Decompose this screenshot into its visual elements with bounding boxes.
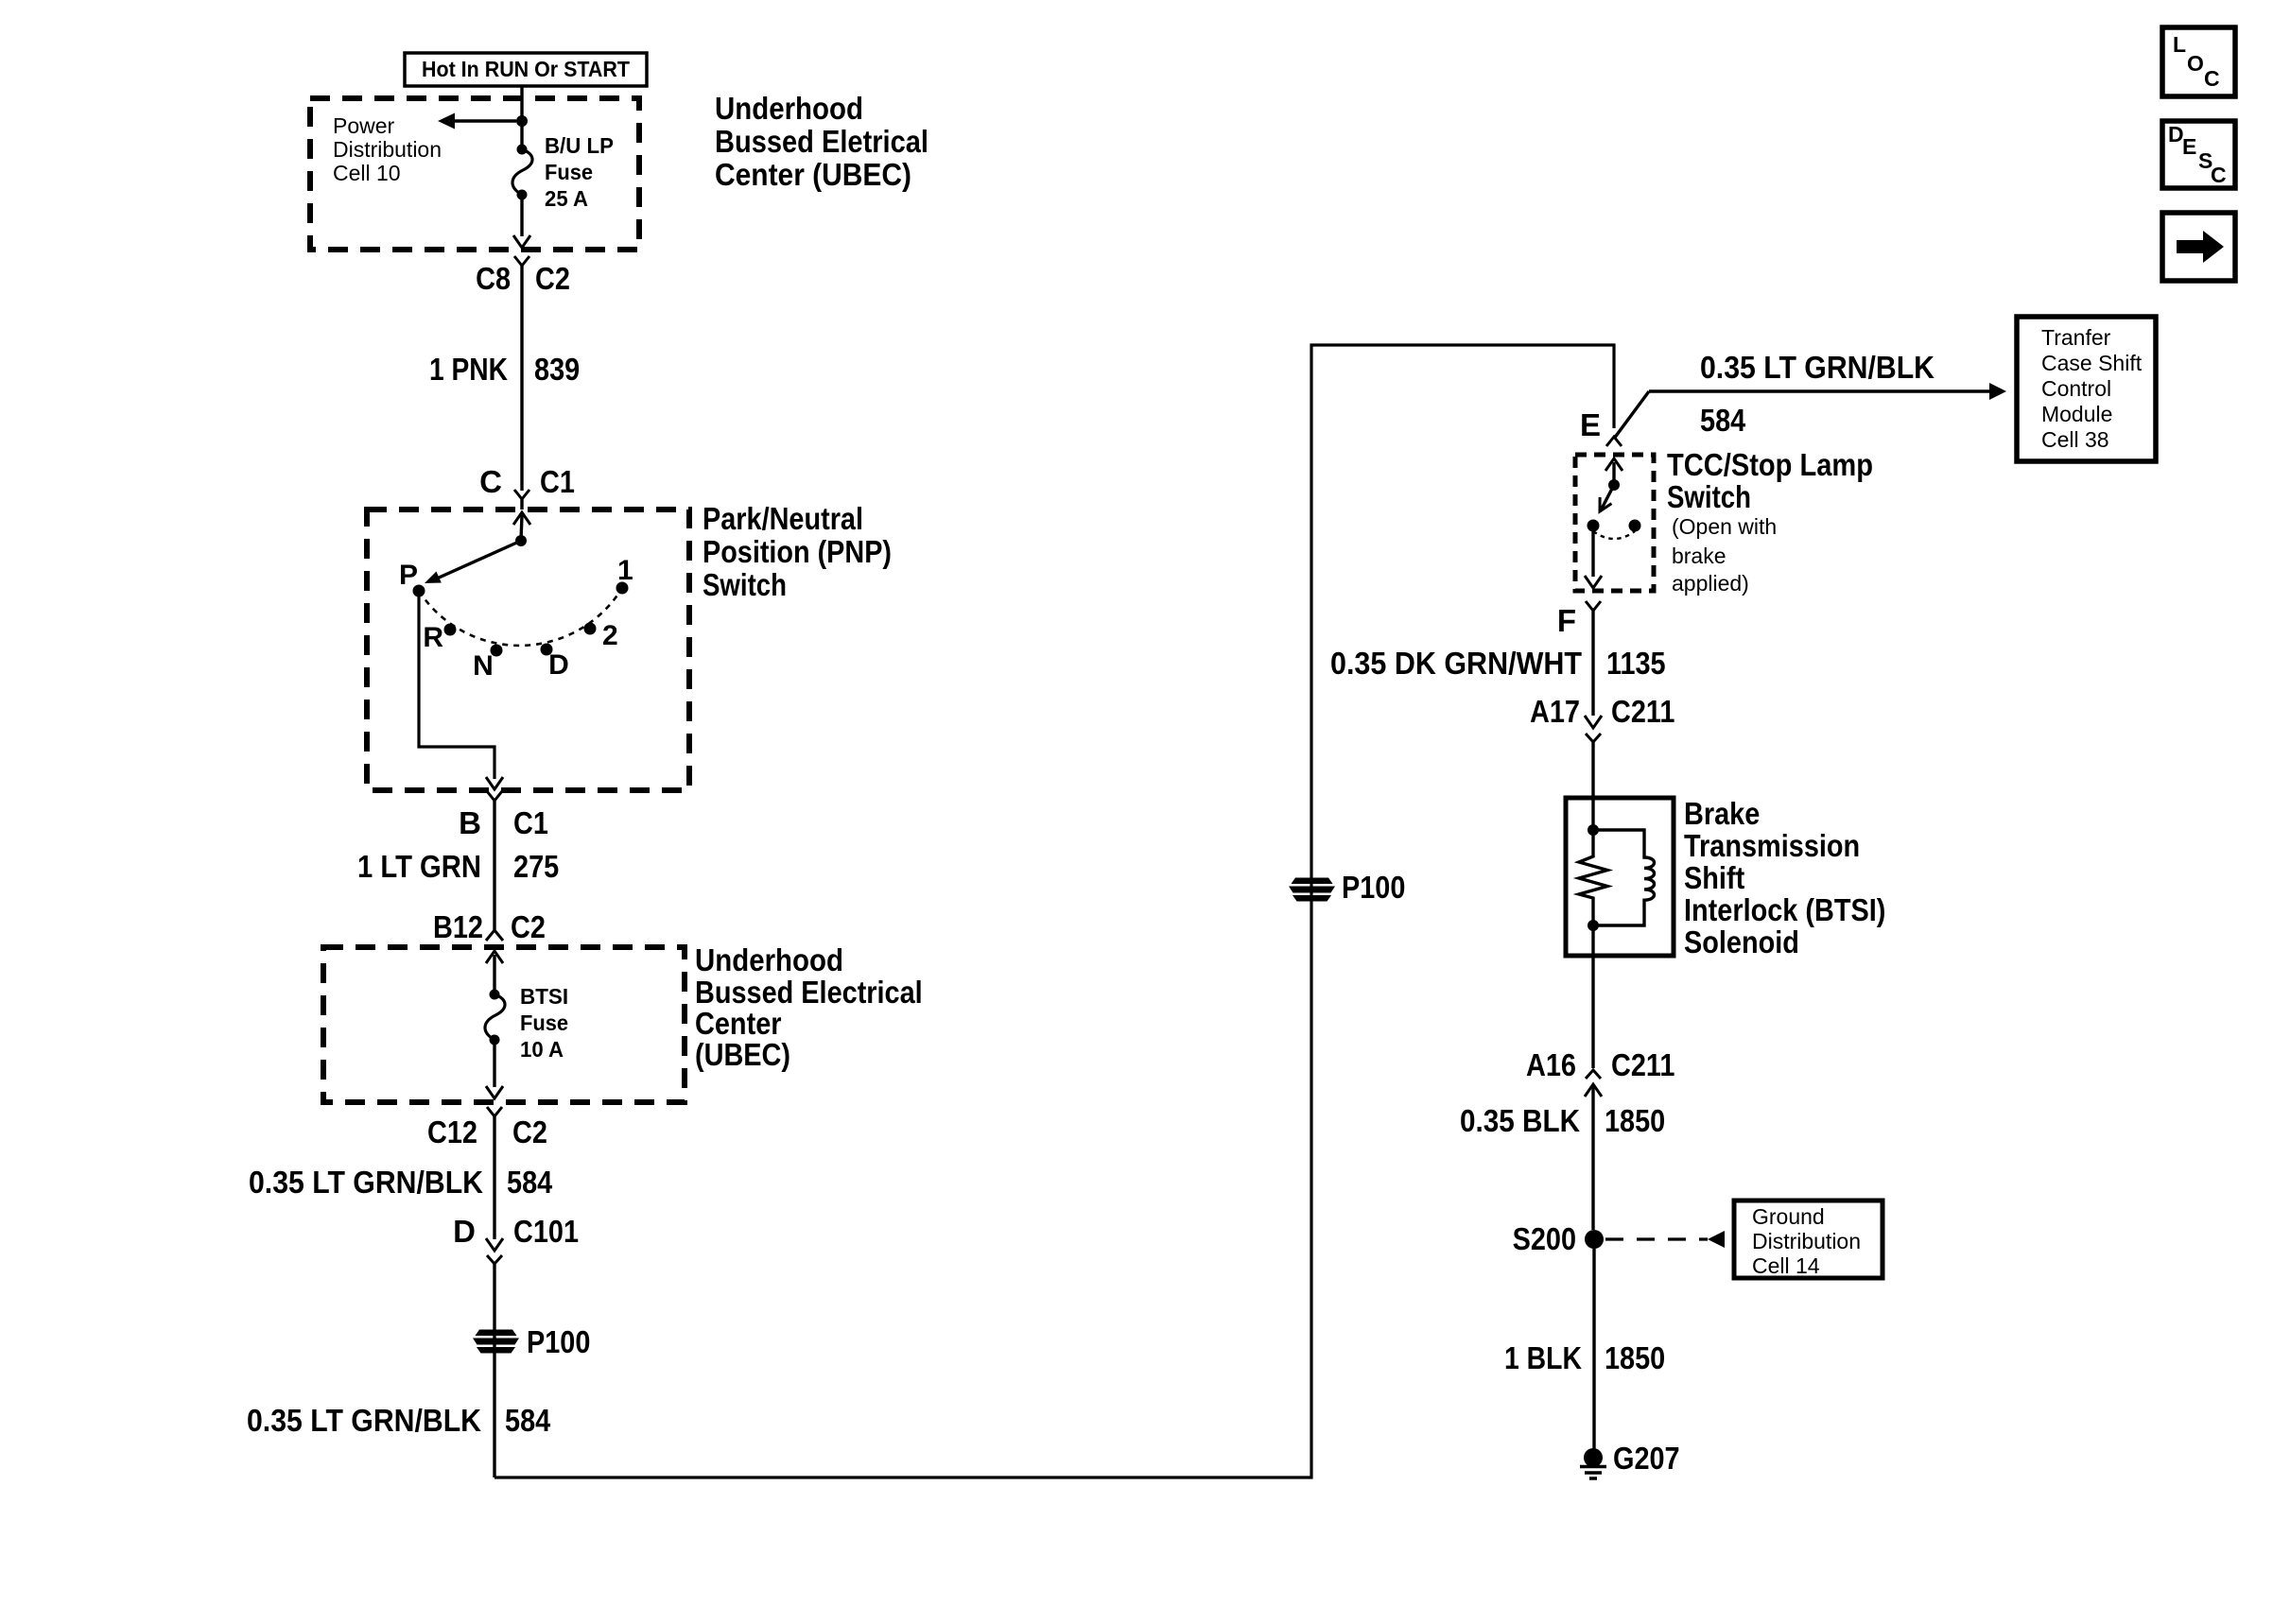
svg-text:applied): applied)	[1672, 571, 1749, 596]
TCC switch travel arc (dashed)	[1593, 531, 1635, 539]
contact R	[444, 624, 457, 636]
svg-text:Tranfer: Tranfer	[2041, 325, 2111, 350]
svg-text:0.35 LT GRN/BLK: 0.35 LT GRN/BLK	[249, 1165, 483, 1200]
svg-text:0.35 DK GRN/WHT: 0.35 DK GRN/WHT	[1330, 646, 1582, 681]
svg-text:Cell 14: Cell 14	[1752, 1253, 1820, 1278]
TCC switch output wire	[1591, 527, 1594, 577]
svg-text:D: D	[548, 649, 569, 681]
TCC contact right	[1629, 520, 1641, 532]
svg-text:C1: C1	[540, 464, 575, 499]
connector C2 pin C8	[514, 256, 529, 266]
svg-text:Bussed Electrical: Bussed Electrical	[695, 975, 923, 1010]
svg-text:(UBEC): (UBEC)	[695, 1037, 790, 1072]
svg-text:Control: Control	[2041, 376, 2111, 401]
solenoid coil element	[1593, 830, 1655, 925]
svg-text:Underhood: Underhood	[715, 91, 863, 126]
TCC contact left	[1588, 520, 1600, 532]
svg-text:C1: C1	[513, 805, 548, 840]
svg-text:(Open with: (Open with	[1672, 514, 1777, 539]
svg-text:E: E	[2182, 134, 2196, 159]
svg-text:C101: C101	[513, 1214, 579, 1249]
next-page arrow box	[2162, 213, 2235, 281]
svg-text:584: 584	[1700, 403, 1746, 438]
svg-text:0.35 LT GRN/BLK: 0.35 LT GRN/BLK	[1700, 350, 1935, 385]
wire from Hot feed into UBEC	[520, 86, 523, 149]
UBEC dashed box (Underhood Bussed Electrical Center)	[310, 98, 639, 250]
connector C211 pin A17	[1585, 716, 1602, 728]
svg-text:C211: C211	[1611, 1047, 1674, 1082]
contact N	[491, 645, 503, 657]
svg-text:Park/Neutral: Park/Neutral	[703, 501, 863, 536]
wire 1 BLK 1850	[1592, 1249, 1595, 1449]
svg-text:B: B	[459, 805, 481, 840]
fuse B/U LP Fuse 25 A	[517, 145, 528, 155]
svg-text:F: F	[1557, 603, 1576, 638]
connector C211 pin A16	[1586, 1070, 1601, 1079]
svg-text:0.35 LT GRN/BLK: 0.35 LT GRN/BLK	[247, 1403, 481, 1438]
connector C101 pin D	[486, 1238, 503, 1251]
svg-text:584: 584	[505, 1403, 551, 1438]
connector pin E	[1606, 437, 1622, 446]
wire from contact P to output	[419, 591, 495, 779]
TCC switch blade arrowhead	[1600, 497, 1611, 511]
svg-text:C: C	[2204, 66, 2220, 91]
long wire run: bottom, up the middle, over to TCC switch	[495, 345, 1614, 1477]
arrowhead into Transfer Case module	[1989, 383, 2006, 400]
LOC info box	[2162, 27, 2235, 96]
svg-text:C2: C2	[535, 261, 570, 296]
svg-text:839: 839	[534, 352, 580, 387]
svg-text:P100: P100	[527, 1324, 590, 1359]
grommet P100 (left)	[476, 1330, 517, 1337]
svg-text:275: 275	[513, 849, 559, 884]
TCC/Stop Lamp Switch dashed box	[1575, 455, 1654, 591]
svg-text:TCC/Stop Lamp: TCC/Stop Lamp	[1667, 447, 1873, 482]
svg-text:BTSI: BTSI	[520, 984, 568, 1009]
power feed box "Hot In RUN Or START"	[405, 53, 647, 86]
wire 0.35 BLK 1850	[1591, 925, 1594, 1068]
svg-text:C211: C211	[1611, 694, 1674, 729]
wire to splice S200	[1591, 1084, 1594, 1230]
PNP contact arc (dashed)	[419, 588, 622, 646]
Transfer Case Shift Control Module box	[2017, 317, 2156, 461]
solenoid top node	[1588, 824, 1599, 836]
contact 2	[584, 623, 597, 635]
svg-text:B/U LP: B/U LP	[545, 133, 614, 158]
Park/Neutral Position (PNP) switch dashed box	[367, 510, 689, 790]
svg-text:C2: C2	[511, 909, 546, 944]
connector C1 pin C	[514, 490, 529, 499]
solenoid bottom node	[1588, 920, 1599, 931]
TCC switch input arrow	[1605, 458, 1622, 471]
svg-text:N: N	[473, 650, 494, 682]
svg-text:1: 1	[617, 555, 633, 586]
solenoid resistor element	[1579, 830, 1607, 925]
TCC switch pivot node	[1608, 479, 1620, 491]
arrow to Power Distribution Cell 10	[438, 113, 455, 130]
contact D	[541, 644, 553, 656]
svg-text:25 A: 25 A	[545, 186, 588, 211]
svg-text:Bussed Eletrical: Bussed Eletrical	[715, 124, 928, 159]
svg-text:Brake: Brake	[1684, 796, 1760, 831]
svg-text:Distribution: Distribution	[333, 137, 442, 162]
svg-text:1 PNK: 1 PNK	[429, 352, 508, 387]
svg-text:Case Shift: Case Shift	[2041, 351, 2143, 375]
BTSI solenoid box	[1566, 798, 1674, 956]
svg-text:A17: A17	[1530, 694, 1580, 729]
wire 1 LT GRN 275	[493, 801, 495, 930]
PNP output arrow	[486, 777, 503, 789]
TCC switch output arrow	[1585, 576, 1602, 588]
DESC info box	[2162, 121, 2235, 188]
svg-text:E: E	[1580, 407, 1601, 442]
svg-text:1850: 1850	[1605, 1340, 1665, 1375]
svg-text:L: L	[2173, 32, 2186, 57]
svg-text:A16: A16	[1526, 1047, 1576, 1082]
svg-text:Power: Power	[333, 113, 395, 138]
junction node in UBEC	[516, 115, 528, 127]
svg-text:Ground: Ground	[1752, 1204, 1825, 1229]
svg-text:10 A: 10 A	[520, 1037, 564, 1062]
connector C2 pin C12	[487, 1107, 502, 1116]
svg-text:Distribution: Distribution	[1752, 1229, 1861, 1253]
svg-text:C8: C8	[476, 261, 511, 296]
svg-text:D: D	[453, 1214, 476, 1249]
wire 0.35 LT GRN/BLK 584	[493, 1116, 495, 1239]
TCC switch blade	[1602, 485, 1614, 509]
svg-text:1850: 1850	[1605, 1103, 1665, 1138]
wire to Power Distribution	[455, 119, 516, 122]
svg-text:P100: P100	[1342, 870, 1405, 905]
svg-text:P: P	[399, 560, 418, 591]
svg-text:Fuse: Fuse	[545, 160, 593, 184]
wire 0.35 DK GRN/WHT 1135	[1591, 611, 1594, 716]
svg-text:Underhood: Underhood	[695, 942, 843, 977]
Ground Distribution Cell 14 box	[1734, 1201, 1883, 1278]
svg-text:C12: C12	[427, 1114, 477, 1149]
wire into BTSI solenoid	[1591, 742, 1594, 830]
svg-text:brake: brake	[1672, 544, 1726, 568]
svg-text:S200: S200	[1513, 1221, 1576, 1256]
wire to splice-grommet P100	[493, 1264, 495, 1477]
svg-text:Center (UBEC): Center (UBEC)	[715, 157, 911, 192]
contact 1	[616, 582, 629, 595]
svg-text:Switch: Switch	[703, 567, 787, 602]
svg-text:1 BLK: 1 BLK	[1504, 1340, 1582, 1375]
svg-text:G207: G207	[1613, 1441, 1680, 1476]
svg-text:O: O	[2187, 51, 2204, 76]
svg-text:1135: 1135	[1606, 646, 1666, 681]
svg-text:C: C	[2211, 163, 2227, 187]
PNP input arrow	[513, 512, 530, 525]
svg-text:0.35 BLK: 0.35 BLK	[1460, 1103, 1580, 1138]
svg-text:Cell 10: Cell 10	[333, 161, 401, 185]
connector C2 pin B12	[486, 930, 503, 941]
svg-text:584: 584	[507, 1165, 553, 1200]
svg-text:1 LT GRN: 1 LT GRN	[357, 849, 481, 884]
svg-text:Hot In RUN Or START: Hot In RUN Or START	[422, 57, 630, 81]
svg-text:Fuse: Fuse	[520, 1011, 568, 1035]
svg-text:R: R	[423, 622, 443, 653]
grommet P100 (right)	[1292, 878, 1333, 885]
svg-text:Cell 38: Cell 38	[2041, 427, 2109, 452]
wire 1 PNK 839	[520, 266, 523, 491]
svg-text:C2: C2	[512, 1114, 547, 1149]
svg-text:Shift: Shift	[1684, 860, 1744, 895]
UBEC dashed box 2	[323, 947, 685, 1102]
connector pin F	[1586, 601, 1601, 611]
connector C1 pin B	[487, 791, 502, 801]
svg-text:Interlock (BTSI): Interlock (BTSI)	[1684, 892, 1885, 927]
PNP wiper pivot node	[515, 535, 527, 546]
svg-text:C: C	[479, 464, 502, 499]
ground G207	[1584, 1448, 1603, 1467]
arrowhead at Ground Distribution reference	[1708, 1231, 1725, 1248]
svg-text:B12: B12	[433, 909, 483, 944]
dashed reference wire to Ground Distribution	[1605, 1237, 1708, 1240]
svg-text:Transmission: Transmission	[1684, 828, 1860, 863]
svg-text:Module: Module	[2041, 402, 2112, 426]
PNP wiper arrowhead	[425, 572, 442, 584]
PNP wiper arm	[437, 541, 521, 579]
wire 0.35 LT GRN/BLK 584 to Transfer Case module	[1614, 391, 1649, 439]
svg-text:2: 2	[602, 620, 618, 651]
svg-text:Center: Center	[695, 1006, 782, 1041]
svg-text:Solenoid: Solenoid	[1684, 924, 1799, 959]
contact P	[413, 585, 425, 597]
splice S200	[1585, 1230, 1604, 1249]
svg-text:Switch: Switch	[1667, 479, 1751, 514]
svg-text:Position (PNP): Position (PNP)	[703, 534, 892, 569]
fuse BTSI Fuse 10 A	[493, 955, 495, 994]
